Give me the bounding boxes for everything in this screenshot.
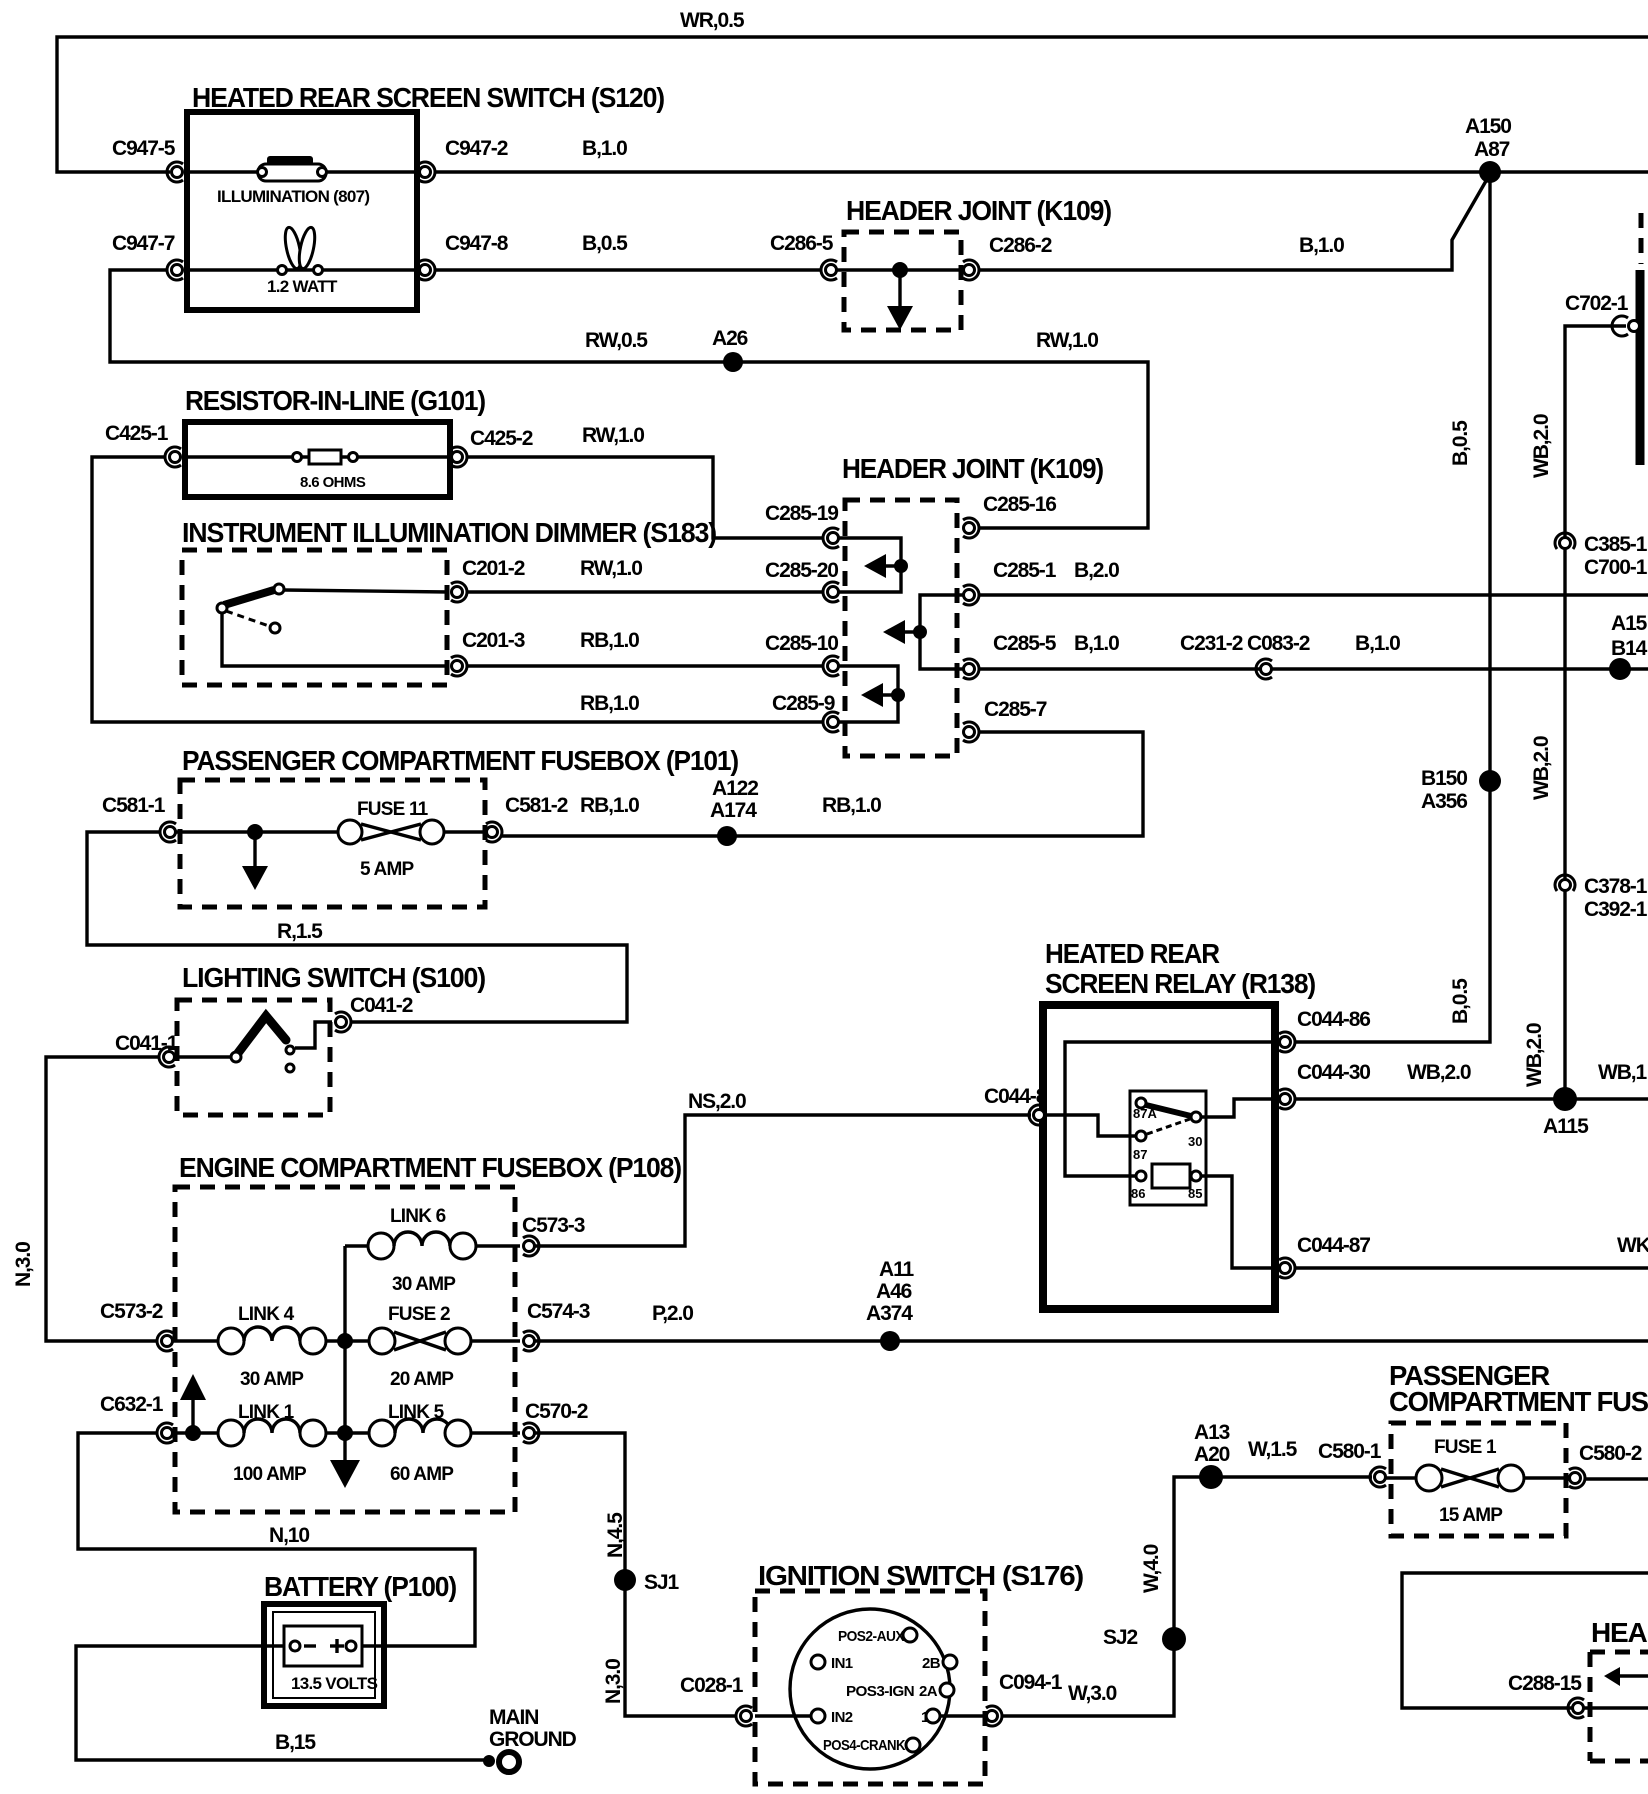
passenger compartment fusebox P101 (170, 745, 738, 907)
node A150 A87 (1465, 115, 1511, 183)
svg-text:C574-3: C574-3 (527, 1300, 590, 1323)
wire WB,2.0 from C702-1 down to A115 (1523, 326, 1626, 1099)
svg-text:P,2.0: P,2.0 (652, 1302, 693, 1325)
svg-text:C285-16: C285-16 (983, 493, 1056, 516)
svg-text:PASSENGER COMPARTMENT FUSEBOX: PASSENGER COMPARTMENT FUSEBOX (P101) (182, 745, 738, 776)
svg-text:C632-1: C632-1 (100, 1393, 164, 1416)
svg-text:85: 85 (1188, 1186, 1202, 1201)
svg-text:87A: 87A (1133, 1106, 1157, 1121)
svg-text:W,4.0: W,4.0 (1140, 1544, 1163, 1593)
connector C947-8 (419, 232, 509, 280)
svg-text:LINK 4: LINK 4 (238, 1304, 295, 1325)
svg-text:W,1.5: W,1.5 (1248, 1438, 1298, 1461)
svg-text:C947-5: C947-5 (112, 137, 176, 160)
svg-text:N,3.0: N,3.0 (12, 1242, 35, 1287)
ignition switch S176 (755, 1560, 1083, 1784)
connector C574-3 (523, 1300, 590, 1351)
svg-text:RW,1.0: RW,1.0 (1036, 329, 1098, 352)
svg-text:C702-1: C702-1 (1565, 292, 1629, 315)
svg-text:SJ1: SJ1 (644, 1571, 679, 1594)
svg-text:A115: A115 (1543, 1115, 1589, 1138)
connector C201-3 (451, 629, 525, 676)
illumination element (807) (217, 156, 369, 206)
svg-text:C285-9: C285-9 (772, 692, 835, 715)
svg-text:C580-1: C580-1 (1318, 1440, 1382, 1463)
wire RB,1.0 from C425-1 loop to C285-9 (92, 457, 824, 722)
relay contact box (1130, 1091, 1206, 1205)
heated rear screen relay R138 (1043, 938, 1315, 1309)
wire WR,0.5 top bus (57, 9, 1648, 172)
connector C378-1 C392-1 (1555, 875, 1648, 921)
node A15 B14 (1609, 612, 1648, 680)
svg-text:NS,2.0: NS,2.0 (688, 1090, 746, 1113)
heated rear screen switch S120 (187, 82, 664, 310)
header joint K109 lower (842, 453, 1103, 756)
link 1 100 amp (170, 1402, 369, 1485)
svg-text:LINK 1: LINK 1 (238, 1402, 295, 1423)
svg-text:HEADER JOINT (K109): HEADER JOINT (K109) (842, 453, 1103, 484)
internal bus vertical in P108 (337, 1246, 353, 1441)
svg-text:ILLUMINATION (807): ILLUMINATION (807) (217, 187, 369, 206)
connector C425-1 (105, 422, 181, 467)
connector C094-1 (986, 1671, 1063, 1726)
link 5 60 amp (369, 1402, 520, 1485)
svg-text:A174: A174 (710, 799, 757, 822)
svg-text:C285-1: C285-1 (993, 559, 1057, 582)
svg-text:C581-2: C581-2 (505, 794, 568, 817)
connector C041-1 (115, 1032, 179, 1067)
svg-text:C700-1: C700-1 (1584, 556, 1648, 579)
wire NS,2.0 from C573-3 to relay C044-8 (529, 1090, 1031, 1246)
svg-text:A122: A122 (712, 777, 758, 800)
svg-text:SJ2: SJ2 (1103, 1626, 1137, 1649)
svg-text:ENGINE COMPARTMENT FUSEBOX (P1: ENGINE COMPARTMENT FUSEBOX (P108) (179, 1152, 681, 1183)
svg-text:C285-19: C285-19 (765, 502, 838, 525)
svg-text:C947-7: C947-7 (112, 232, 175, 255)
ground arrow in K109 top (887, 262, 913, 330)
wire from C580-2 to right edge (1584, 1477, 1648, 1480)
svg-text:RW,1.0: RW,1.0 (580, 557, 642, 580)
svg-text:30: 30 (1188, 1134, 1202, 1149)
header joint K109 top (831, 195, 1111, 330)
svg-text:2B: 2B (922, 1655, 941, 1672)
svg-text:N,10: N,10 (269, 1524, 309, 1547)
wire P,2.0 from C574-3 to right edge (529, 1302, 1648, 1341)
svg-text:C947-8: C947-8 (445, 232, 509, 255)
connector C632-1 (100, 1393, 173, 1443)
heated rear window component cut at right edge (1590, 1617, 1648, 1761)
wire N,3.0 from C041-1 to C573-2 (12, 1057, 160, 1341)
connector C201-2 (451, 557, 525, 602)
svg-text:W,3.0: W,3.0 (1068, 1682, 1117, 1705)
wire B,0.5 from C947-8 to C286-5 (434, 232, 822, 270)
svg-text:5 AMP: 5 AMP (360, 859, 414, 880)
battery P100 (264, 1571, 456, 1706)
wire B,1.0 from C285-5 to right edge (978, 632, 1648, 669)
node A26 (712, 327, 748, 372)
svg-text:LIGHTING SWITCH (S100): LIGHTING SWITCH (S100) (182, 962, 485, 993)
node B150 A356 (1421, 767, 1501, 813)
down arrow in P108 (330, 1433, 360, 1488)
svg-text:LINK 5: LINK 5 (388, 1402, 445, 1423)
wire B,2.0 from C285-1 to right edge (978, 593, 1648, 596)
svg-text:POS2-AUX: POS2-AUX (838, 1628, 905, 1645)
svg-text:A13: A13 (1194, 1421, 1230, 1444)
svg-text:C041-1: C041-1 (115, 1032, 179, 1055)
svg-text:C041-2: C041-2 (350, 994, 413, 1017)
svg-text:C285-5: C285-5 (993, 632, 1057, 655)
svg-text:B,1.0: B,1.0 (1355, 632, 1400, 655)
svg-text:B150: B150 (1421, 767, 1467, 790)
connector C385-1 C700-1 (1555, 533, 1648, 579)
fuse 1 15 amp (1416, 1437, 1524, 1526)
connector C570-2 (523, 1400, 588, 1443)
svg-text:B,0.5: B,0.5 (582, 232, 628, 255)
svg-text:IGNITION SWITCH (S176): IGNITION SWITCH (S176) (758, 1560, 1083, 1591)
svg-text:WB,2.0: WB,2.0 (1530, 414, 1553, 478)
connector C573-2 (100, 1300, 173, 1351)
svg-text:30 AMP: 30 AMP (392, 1274, 456, 1295)
wire N,10 from C632-1 to battery positive (78, 1433, 475, 1646)
connector C580-2 (1569, 1442, 1642, 1488)
connector C041-2 (335, 994, 413, 1032)
svg-text:RB,1.0: RB,1.0 (580, 794, 639, 817)
svg-text:C570-2: C570-2 (525, 1400, 588, 1423)
svg-text:C425-1: C425-1 (105, 422, 169, 445)
svg-text:RESISTOR-IN-LINE (G101): RESISTOR-IN-LINE (G101) (185, 385, 485, 416)
svg-text:INSTRUMENT ILLUMINATION DIMMER: INSTRUMENT ILLUMINATION DIMMER (S183) (182, 517, 716, 548)
connector C947-7 (112, 232, 183, 280)
wire RB,1.0 dimmer C201-3 to C285-10 (466, 629, 824, 666)
connector C285-5 (963, 632, 1057, 679)
svg-text:B,1.0: B,1.0 (1299, 234, 1344, 257)
svg-text:WK: WK (1617, 1234, 1648, 1257)
wire B,15 from battery negative to main ground (76, 1646, 486, 1760)
node A115 (1543, 1087, 1589, 1138)
svg-text:C573-3: C573-3 (522, 1214, 585, 1237)
connector C286-5 (770, 232, 837, 280)
resistor-in-line G101 (185, 385, 485, 497)
svg-text:FUSE 2: FUSE 2 (388, 1304, 450, 1325)
svg-text:C285-20: C285-20 (765, 559, 838, 582)
svg-text:BATTERY (P100): BATTERY (P100) (264, 1571, 456, 1602)
svg-text:HEATED REAR: HEATED REAR (1045, 938, 1220, 969)
K109 joint C285-10 to C285-9 (833, 666, 905, 722)
wire R,1.5 from C581-1 to C041-2 (87, 832, 627, 1022)
svg-text:HEA: HEA (1591, 1617, 1647, 1648)
svg-text:1.2 WATT: 1.2 WATT (267, 277, 338, 296)
lighting switch lever (178, 1016, 332, 1072)
svg-text:GROUND: GROUND (489, 1728, 577, 1751)
svg-text:RB,1.0: RB,1.0 (580, 692, 639, 715)
node SJ2 (1103, 1626, 1186, 1651)
svg-text:IN1: IN1 (831, 1655, 853, 1672)
svg-text:B,0.5: B,0.5 (1449, 978, 1472, 1024)
connector C288-15 (1508, 1672, 1584, 1718)
svg-text:WB,1: WB,1 (1598, 1061, 1648, 1084)
svg-text:60 AMP: 60 AMP (390, 1464, 454, 1485)
node SJ1 (614, 1569, 679, 1594)
node A13 A20 (1194, 1421, 1230, 1489)
wire RW,1.0 dimmer C201-2 to C285-20 (466, 557, 824, 592)
main ground (483, 1706, 577, 1772)
svg-text:13.5 VOLTS: 13.5 VOLTS (291, 1674, 378, 1693)
engine compartment fusebox P108 (175, 1152, 681, 1512)
svg-text:N,3.0: N,3.0 (602, 1659, 625, 1704)
svg-text:C392-1: C392-1 (1584, 898, 1648, 921)
wire RB,1.0 from C285-7 to C581-2 (501, 732, 1143, 836)
connector C947-5 (112, 137, 183, 182)
svg-text:B,15: B,15 (275, 1731, 316, 1754)
svg-text:A356: A356 (1421, 790, 1467, 813)
wire W,3.0 W,4.0 W,1.5 from C094-1 to C580-1 (1001, 1438, 1372, 1716)
svg-text:B,2.0: B,2.0 (1074, 559, 1119, 582)
svg-text:C573-2: C573-2 (100, 1300, 163, 1323)
passenger compartment fusebox bottom right (1380, 1360, 1648, 1536)
link 6 30 amp (345, 1206, 520, 1295)
svg-text:WB,2.0: WB,2.0 (1407, 1061, 1471, 1084)
svg-text:WB,2.0: WB,2.0 (1523, 1023, 1546, 1087)
connector C044-87 (1279, 1234, 1370, 1278)
svg-text:30 AMP: 30 AMP (240, 1369, 304, 1390)
svg-text:MAIN: MAIN (489, 1706, 538, 1729)
connector C028-1 (680, 1674, 752, 1726)
svg-text:C286-2: C286-2 (989, 234, 1052, 257)
node A122 A174 (710, 777, 758, 846)
connector C573-3 (522, 1214, 585, 1256)
connector C702-1 (1565, 292, 1640, 336)
wire RW,0.5 / RW,1.0 from C947-7 to C285-16 (110, 270, 1148, 528)
svg-text:A11: A11 (879, 1258, 914, 1281)
svg-text:A150: A150 (1465, 115, 1511, 138)
svg-text:86: 86 (1131, 1186, 1145, 1201)
svg-text:A26: A26 (712, 327, 748, 350)
link 4 30 amp (170, 1304, 369, 1390)
svg-text:C028-1: C028-1 (680, 1674, 744, 1697)
connector C947-2 (419, 137, 508, 182)
dimmer wiper (217, 584, 448, 666)
K109 joint C285-19 to C285-20 (833, 538, 908, 592)
connector C425-2 (451, 427, 533, 467)
svg-text:R,1.5: R,1.5 (277, 920, 323, 943)
K109 joint C285-1 to C285-5 (883, 595, 966, 669)
node A11 A46 A374 (866, 1258, 914, 1351)
svg-text:POS4-CRANK: POS4-CRANK (823, 1737, 906, 1754)
svg-text:B,0.5: B,0.5 (1449, 420, 1472, 466)
connector C580-1 (1318, 1440, 1386, 1487)
svg-text:WB,2.0: WB,2.0 (1530, 736, 1553, 800)
wire B,1.0 from C286-2 to A150 (978, 174, 1490, 270)
svg-text:C044-87: C044-87 (1297, 1234, 1370, 1257)
svg-text:SCREEN RELAY (R138): SCREEN RELAY (R138) (1045, 968, 1315, 999)
svg-text:C425-2: C425-2 (470, 427, 533, 450)
svg-text:WR,0.5: WR,0.5 (680, 9, 745, 32)
svg-text:C285-7: C285-7 (984, 698, 1047, 721)
wire RW,1.0 resistor C425-2 to C285-19 (466, 424, 824, 538)
svg-text:15 AMP: 15 AMP (1439, 1505, 1503, 1526)
wire B,1.0 from C947-2 to right edge (434, 137, 1648, 172)
lamp 1.2 watt (267, 226, 338, 296)
connector C285-19 (765, 502, 839, 548)
svg-text:POS3-IGN: POS3-IGN (846, 1683, 914, 1700)
svg-text:C378-1: C378-1 (1584, 875, 1648, 898)
fuse 11 5 amp (338, 799, 444, 880)
wire WK from relay C044-87 to right edge (1294, 1234, 1648, 1268)
svg-text:RB,1.0: RB,1.0 (580, 629, 639, 652)
connector C044-30 (1279, 1061, 1370, 1109)
svg-text:100 AMP: 100 AMP (233, 1464, 307, 1485)
svg-text:B14: B14 (1611, 637, 1648, 660)
svg-text:FUSE 11: FUSE 11 (357, 799, 429, 820)
connector C231-2 C083-2 (1180, 632, 1310, 679)
svg-text:RW,0.5: RW,0.5 (585, 329, 648, 352)
svg-text:A15: A15 (1611, 612, 1648, 635)
svg-text:LINK 6: LINK 6 (390, 1206, 446, 1227)
wire to heated rear window C288-15 (1402, 1573, 1648, 1708)
svg-text:A46: A46 (876, 1280, 912, 1303)
connector C044-8 (984, 1085, 1048, 1125)
up arrow in P108 (180, 1374, 206, 1441)
svg-text:A87: A87 (1474, 138, 1510, 161)
ground arrow in P101 (242, 824, 268, 890)
svg-text:C201-2: C201-2 (462, 557, 525, 580)
svg-text:RB,1.0: RB,1.0 (822, 794, 881, 817)
wire WB,2.0 from relay C044-30 to right edge (1294, 1061, 1648, 1099)
svg-text:C231-2 C083-2: C231-2 C083-2 (1180, 632, 1310, 655)
svg-text:HEADER JOINT (K109): HEADER JOINT (K109) (846, 195, 1111, 226)
svg-text:C947-2: C947-2 (445, 137, 508, 160)
connector C044-86 (1279, 1008, 1370, 1052)
fuse 2 20 amp (369, 1304, 520, 1390)
connector C581-2 (486, 794, 639, 842)
wire N,4.5 N,3.0 from C570-2 to C028-1 (529, 1433, 737, 1716)
svg-text:C580-2: C580-2 (1579, 1442, 1642, 1465)
svg-text:C094-1: C094-1 (999, 1671, 1063, 1694)
svg-text:C286-5: C286-5 (770, 232, 834, 255)
svg-text:FUSE 1: FUSE 1 (1434, 1437, 1497, 1458)
connector C581-1 (102, 794, 176, 842)
connector C285-20 (765, 559, 839, 602)
svg-text:C201-3: C201-3 (462, 629, 525, 652)
svg-text:B,1.0: B,1.0 (1074, 632, 1119, 655)
svg-text:C288-15: C288-15 (1508, 1672, 1582, 1695)
svg-text:IN2: IN2 (831, 1709, 853, 1726)
svg-text:2A: 2A (919, 1683, 938, 1700)
svg-text:COMPARTMENT FUSE: COMPARTMENT FUSE (1389, 1386, 1648, 1417)
svg-text:RW,1.0: RW,1.0 (582, 424, 644, 447)
connector C285-9 (772, 692, 839, 732)
svg-text:A20: A20 (1194, 1443, 1230, 1466)
ignition pins (755, 1628, 992, 1754)
svg-text:C385-1: C385-1 (1584, 533, 1648, 556)
relay internal wires (1047, 1042, 1275, 1268)
svg-text:20 AMP: 20 AMP (390, 1369, 454, 1390)
instrument illumination dimmer S183 (182, 517, 716, 685)
svg-text:B,1.0: B,1.0 (582, 137, 627, 160)
svg-text:87: 87 (1133, 1147, 1147, 1162)
svg-text:C044-86: C044-86 (1297, 1008, 1370, 1031)
svg-text:C044-8: C044-8 (984, 1085, 1048, 1108)
connector C286-2 (963, 234, 1052, 280)
svg-text:C285-10: C285-10 (765, 632, 838, 655)
svg-text:8.6 OHMS: 8.6 OHMS (300, 474, 366, 491)
heated rear screen element cut at top right edge (1640, 213, 1641, 465)
relay coil (1131, 1164, 1202, 1201)
svg-text:C581-1: C581-1 (102, 794, 166, 817)
svg-text:C044-30: C044-30 (1297, 1061, 1370, 1084)
wire B,0.5 vertical A150 to relay C044-86 (1294, 172, 1490, 1042)
connector C285-7 (963, 698, 1047, 742)
connector C285-1 (963, 559, 1119, 605)
lighting switch S100 (177, 962, 485, 1115)
svg-text:N,4.5: N,4.5 (604, 1512, 627, 1558)
connector C285-16 (963, 493, 1056, 538)
connector C285-10 (765, 632, 839, 676)
svg-text:A374: A374 (866, 1302, 913, 1325)
svg-text:HEATED REAR SCREEN SWITCH (S12: HEATED REAR SCREEN SWITCH (S120) (192, 82, 664, 113)
